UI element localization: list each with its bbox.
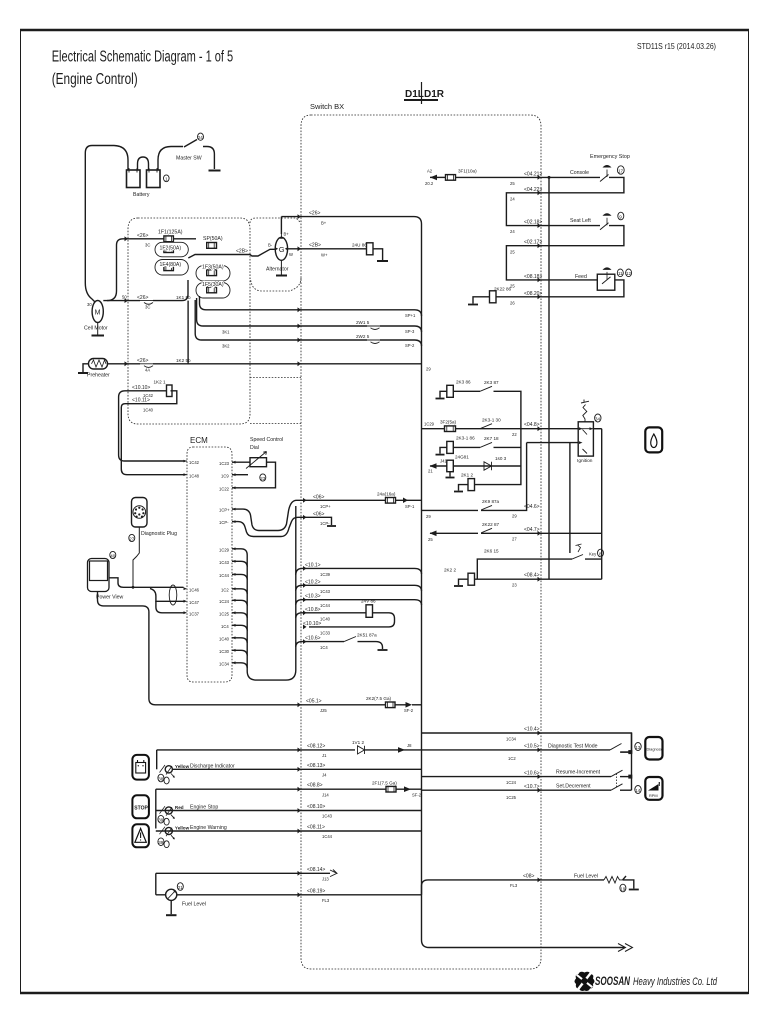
svg-text:1C30: 1C30 [219, 649, 230, 654]
wire battery1 to left bus [85, 146, 128, 303]
page frame right border [748, 30, 750, 994]
wire 10.10 to ECM pin 1C42 [119, 455, 184, 461]
svg-text:D1L: D1L [405, 89, 424, 100]
key switch blade [572, 555, 583, 560]
preheater body [89, 359, 108, 370]
svg-text:STOP: STOP [134, 805, 148, 811]
svg-text:24: 24 [198, 135, 204, 140]
stadium around fuse 1F5 [196, 283, 230, 299]
svg-text:B+: B+ [321, 221, 327, 226]
svg-text:3C: 3C [145, 243, 150, 248]
console mushroom button [606, 170, 608, 178]
fuel sender resistor zigzag [604, 877, 623, 884]
engine stop badge circle 39 [158, 815, 164, 823]
relay row 2K1 2 coil [468, 479, 475, 491]
wire battery2 to master switch [158, 147, 183, 171]
2K3 row to vertical [494, 391, 521, 428]
seat left emergency stop switch blade [600, 223, 609, 230]
fuel badge circle 21 [177, 883, 183, 891]
stadium around fuse 1F2 [155, 242, 188, 256]
key switch squiggle [576, 544, 582, 552]
svg-text:Electrical Schematic Diagram -: Electrical Schematic Diagram - 1 of 5 [52, 49, 234, 66]
svg-text:Speed Control: Speed Control [250, 437, 283, 443]
preheater wire to B+ bus [153, 363, 422, 365]
svg-text:Seat Left: Seat Left [570, 218, 591, 224]
svg-text:J41: J41 [440, 459, 447, 464]
svg-text:Power View: Power View [96, 595, 124, 601]
svg-text:<04.7>: <04.7> [524, 527, 540, 533]
harness corridor dashed lines [250, 377, 301, 379]
relay row 2K3: coil [447, 385, 454, 397]
svg-text:<10.4>: <10.4> [524, 727, 540, 733]
discharge indicator lamp [165, 766, 172, 773]
svg-text:1C44: 1C44 [320, 603, 331, 608]
svg-text:1C42: 1C42 [189, 460, 200, 465]
2K22 86 coil to ground [473, 297, 490, 304]
svg-text:1C23: 1C23 [219, 461, 230, 466]
svg-text:1K2 1: 1K2 1 [154, 380, 166, 385]
svg-text:1C25: 1C25 [506, 795, 517, 800]
svg-text:25: 25 [510, 284, 515, 289]
fuse 1F2 [164, 247, 174, 253]
svg-text:14: 14 [635, 788, 641, 793]
set switch blade [611, 784, 623, 790]
ignition terminal marks [579, 427, 593, 430]
feed bus vertical (right) [548, 177, 550, 579]
seat left mushroom button [606, 218, 608, 226]
svg-text:<10.6>: <10.6> [524, 770, 540, 776]
svg-text:Feed: Feed [575, 274, 587, 280]
alternator terminal marks [275, 236, 288, 251]
svg-text:1C39: 1C39 [320, 572, 331, 577]
svg-text:39: 39 [158, 818, 164, 823]
relay coil 24V 86 (10.8 row) [366, 605, 373, 618]
Power View monitor outer [88, 559, 110, 592]
master switch right wire to ground [203, 147, 214, 170]
console row fuse to switch [456, 176, 601, 178]
master switch circle badge 24 [198, 133, 204, 140]
svg-text:SF-2: SF-2 [412, 792, 422, 797]
2K7 18 contact blade [480, 442, 492, 447]
08.4 row [475, 578, 602, 580]
svg-text:<06>: <06> [313, 511, 324, 517]
2K22 87 contact blade on 04.7 [480, 528, 492, 533]
svg-text:<08.4>: <08.4> [524, 573, 540, 579]
svg-text:J8: J8 [407, 743, 412, 748]
sheet mark D1L / D1R [404, 82, 438, 104]
svg-text:1C44: 1C44 [219, 573, 230, 578]
diode row coil 24G81 [447, 460, 454, 472]
fuel row jog up at bus [422, 880, 605, 895]
svg-text:Fuel Level: Fuel Level [182, 902, 206, 908]
row A vertical to row B [156, 750, 158, 769]
svg-text:Heavy Industries Co. Ltd: Heavy Industries Co. Ltd [633, 976, 718, 988]
SP-3 row wire left of contact [211, 325, 367, 327]
fuse SP(50A) [207, 243, 217, 249]
battery warning icon box [132, 755, 149, 780]
indicator row A wire [157, 749, 355, 751]
svg-text:<10.11>: <10.11> [132, 398, 150, 404]
svg-text:<10.10>: <10.10> [303, 621, 321, 627]
svg-text:1CP+: 1CP+ [320, 504, 331, 509]
svg-text:SP-1: SP-1 [405, 504, 415, 509]
svg-text:24V 86: 24V 86 [361, 599, 376, 604]
ignition acc wire left [527, 442, 579, 444]
2K3-1 row to vertical [494, 446, 521, 448]
1CP- wire jog [232, 517, 322, 536]
svg-text:2K6 15: 2K6 15 [484, 548, 499, 553]
wire M to 1K1 relay row [103, 300, 140, 302]
row E wire [156, 830, 422, 832]
seat circle badge 9 [618, 212, 624, 220]
svg-text:1C2: 1C2 [508, 756, 516, 761]
svg-text:19: 19 [620, 886, 626, 891]
svg-text:2K2(7.5 Ga): 2K2(7.5 Ga) [366, 696, 391, 701]
04.6 row [422, 509, 521, 511]
svg-text:Yellow: Yellow [175, 764, 190, 769]
svg-text:2K1 2: 2K1 2 [461, 472, 473, 477]
fuel right badge circle 19 [620, 884, 626, 892]
svg-text:Dial: Dial [250, 445, 259, 451]
Diagnostic Plug connector body [132, 498, 148, 528]
alternator G [275, 237, 287, 260]
svg-text:D1R: D1R [424, 89, 445, 100]
svg-text:17: 17 [618, 168, 624, 173]
svg-text:SP+1: SP+1 [405, 313, 416, 318]
SOOSAN logo mark [575, 972, 595, 991]
feed circle badges 11 12 [617, 269, 623, 277]
svg-text:22: 22 [512, 432, 517, 437]
ECM pin 1C2 wire into bundle [232, 589, 247, 594]
engine warning lamp [165, 827, 172, 834]
relay coil 1K2 1 [167, 385, 173, 397]
1K2 5b relay contact hump [140, 364, 153, 368]
ECM pin 1C44 wire into bundle [232, 574, 247, 580]
svg-text:Yellow: Yellow [175, 826, 190, 831]
svg-text:1F3(50A): 1F3(50A) [202, 265, 224, 271]
wire junction to ECM pin 1C46 [133, 586, 184, 588]
svg-text:<08.14>: <08.14> [307, 867, 325, 873]
ECM pin 1C4 wire into bundle [232, 625, 247, 631]
svg-text:1C4: 1C4 [221, 624, 229, 629]
svg-text:1C34: 1C34 [219, 661, 230, 666]
W wire to ground [373, 249, 383, 260]
svg-text:<08>: <08> [523, 873, 534, 879]
DTM contact to vertical [620, 751, 632, 753]
battery jumper wire [138, 157, 149, 170]
key link vertical [569, 443, 571, 553]
svg-text:23: 23 [260, 476, 266, 481]
svg-text:12: 12 [626, 271, 632, 276]
svg-text:Battery: Battery [133, 192, 150, 198]
svg-text:21: 21 [428, 469, 433, 474]
speed control return wire to 1C22 [232, 462, 276, 488]
battery 2 [147, 170, 161, 188]
2K1 2 coil ground [459, 485, 469, 491]
2K3-1 30 contact blade [480, 424, 492, 429]
svg-text:1C40: 1C40 [143, 408, 154, 413]
svg-text:SOOSAN: SOOSAN [595, 976, 630, 988]
feed switch enclosure box [597, 274, 615, 290]
wire monitor to junction [109, 578, 133, 588]
wire 1C37 feed [156, 601, 184, 613]
fuel sender circle [166, 889, 177, 900]
svg-text:J25: J25 [320, 708, 327, 713]
svg-text:SF-2: SF-2 [404, 708, 414, 713]
svg-text:3K2: 3K2 [222, 344, 230, 349]
svg-text:1F2(50A): 1F2(50A) [160, 246, 182, 252]
svg-text:2K3-1 86: 2K3-1 86 [456, 435, 475, 440]
svg-text:Engine Stop: Engine Stop [190, 805, 218, 811]
riser M node to fuse feed row [107, 239, 128, 301]
ignition feed row from B+ bus [422, 428, 579, 430]
svg-text:21: 21 [178, 885, 184, 890]
svg-text:RPM: RPM [649, 793, 658, 798]
2K3 coil ground [440, 391, 447, 397]
svg-text:G: G [279, 245, 285, 254]
svg-text:2W1 5: 2W1 5 [356, 320, 370, 325]
svg-text:1C4: 1C4 [320, 645, 328, 650]
resume switch blade [611, 770, 623, 776]
ignition row through box [578, 428, 602, 430]
preheater ground [83, 364, 89, 372]
1CP+ row to fuse [301, 499, 386, 501]
speed control wire 1C23 [232, 461, 250, 463]
right vertical bus (diag rows) [631, 733, 633, 790]
svg-text:J4: J4 [322, 773, 327, 778]
console emergency stop switch blade [600, 175, 609, 182]
SP+1 row riser from fuse 1F3 [200, 296, 215, 310]
svg-text:<2B>: <2B> [236, 249, 248, 255]
svg-text:B-: B- [268, 243, 273, 248]
svg-text:2K22 86: 2K22 86 [494, 287, 512, 292]
svg-text:<08.10>: <08.10> [307, 804, 325, 810]
row B wire [172, 768, 421, 770]
resume-set link dashed [616, 774, 618, 789]
1K1 5b relay contact hump [140, 301, 153, 305]
svg-text:3F1(10a): 3F1(10a) [458, 169, 477, 174]
DTM row bus to switch [422, 749, 611, 751]
svg-text:Engine Warning: Engine Warning [190, 825, 227, 831]
connector pin ticks on Switch BX left edge [298, 214, 307, 897]
page frame bottom border [20, 992, 749, 994]
acc vertical to 04.6 row [520, 443, 527, 511]
svg-text:1CP-: 1CP- [219, 520, 229, 525]
svg-text:<08.11>: <08.11> [307, 825, 325, 831]
svg-text:ECM: ECM [190, 436, 208, 445]
svg-text:1CP-: 1CP- [320, 521, 330, 526]
svg-text:27: 27 [512, 536, 517, 541]
2K3-1 row wire [453, 446, 480, 448]
svg-text:1C25: 1C25 [219, 611, 230, 616]
B+ bus horizontal to corner [281, 217, 421, 240]
ECM pin 1C40 wire into bundle [232, 638, 247, 643]
2W2 5 contact hump [367, 340, 380, 344]
05.1 row arrow to B+ bus [406, 702, 413, 708]
svg-text:39: 39 [158, 840, 164, 845]
svg-text:1C24: 1C24 [219, 599, 230, 604]
stadium around fuse 1F3 [196, 266, 230, 282]
fuse 3F1(10A) [446, 175, 456, 181]
svg-text:W+: W+ [321, 253, 328, 258]
1K2-1 coil row (10.10) [119, 391, 167, 455]
ignition switch box [578, 422, 593, 456]
svg-text:27: 27 [129, 536, 135, 541]
svg-text:1K1 5b: 1K1 5b [176, 295, 191, 300]
main feed wire to alternator [188, 249, 274, 258]
svg-text:J14: J14 [322, 792, 329, 797]
24G81 ground [449, 472, 451, 477]
svg-text:24G81: 24G81 [455, 455, 469, 460]
connector pin ticks on Switch BX right edge [538, 175, 542, 882]
10.10 row to loop corner [121, 391, 183, 475]
svg-text:<26>: <26> [137, 233, 148, 239]
2K2 2 coil ground [459, 579, 469, 585]
svg-text:1F5(30A): 1F5(30A) [202, 282, 224, 288]
svg-text:Cell Motor: Cell Motor [84, 326, 108, 332]
alternator W terminal wire [288, 248, 367, 250]
svg-text:Set.Decrement: Set.Decrement [556, 784, 591, 790]
STOP icon box [132, 795, 149, 818]
svg-text:SP(50A): SP(50A) [203, 236, 223, 242]
svg-text:J1: J1 [322, 753, 327, 758]
ignition internal contacts [583, 430, 588, 454]
battery 1 [127, 170, 141, 188]
svg-text:24U 86: 24U 86 [352, 242, 367, 247]
diagnostic plug wire down to junction [133, 527, 139, 587]
fuse 1F4 [164, 265, 174, 271]
2K9 87a contact blade on 04.6 [480, 505, 492, 510]
fuel group vertical [155, 873, 157, 895]
svg-text:1CP+: 1CP+ [219, 508, 230, 513]
SP-2 row riser [195, 300, 210, 340]
svg-text:Emergency Stop: Emergency Stop [590, 154, 630, 160]
2K3 87 contact blade [480, 386, 492, 391]
set contact [620, 789, 632, 791]
SP-3 row wire to bus [380, 326, 422, 332]
speed control circle badge 23 [260, 474, 266, 481]
svg-text:25: 25 [510, 249, 515, 254]
wire 1K1 to riser [153, 280, 188, 301]
row 10.2 from bundle [296, 585, 422, 591]
ignition circle badge 34 [595, 414, 601, 422]
svg-text:3C: 3C [145, 305, 150, 310]
SP+1 row wire [214, 310, 422, 316]
svg-text:2K51 87a: 2K51 87a [357, 633, 377, 638]
svg-text:FL3: FL3 [322, 898, 330, 903]
Power View circle badge 40 [110, 551, 116, 558]
fuse feed row 1F1 [128, 238, 196, 240]
wire 1C47 feed [150, 589, 184, 602]
junction dot [132, 586, 135, 589]
monitor bottom wire to bus [98, 592, 408, 705]
SP-3 row riser [197, 298, 211, 326]
svg-text:Master SW: Master SW [176, 156, 202, 162]
svg-text:<2B>: <2B> [309, 243, 321, 249]
svg-text:A2: A2 [427, 168, 433, 173]
svg-text:20.2: 20.2 [425, 181, 434, 186]
fuse 24a(16a) [386, 498, 396, 504]
svg-text:1C29: 1C29 [424, 422, 435, 427]
Switch BX dashed enclosure [301, 115, 541, 969]
svg-text:<10.3>: <10.3> [305, 594, 321, 600]
1CP+ row fuse to bus [396, 499, 422, 501]
alternator ground [280, 260, 282, 274]
svg-text:Console: Console [570, 170, 589, 176]
ignition right vertical [601, 429, 603, 580]
svg-text:1C44: 1C44 [322, 834, 333, 839]
wire preheater to 1K2 relay [108, 363, 141, 365]
svg-text:30: 30 [87, 302, 92, 307]
svg-text:Red: Red [175, 805, 184, 810]
svg-text:4A: 4A [145, 368, 150, 373]
2K51 87a contact blade [344, 637, 356, 642]
svg-text:1C43: 1C43 [322, 814, 333, 819]
svg-text:2K3 87: 2K3 87 [484, 380, 499, 385]
svg-text:1C47: 1C47 [189, 600, 200, 605]
svg-text:25: 25 [428, 537, 433, 542]
set decrement row [422, 789, 612, 791]
svg-text:1C9: 1C9 [221, 473, 229, 478]
feed row right corner down to 08.20 [496, 280, 624, 297]
svg-text:1C40: 1C40 [219, 636, 230, 641]
key row right [585, 558, 602, 560]
B+ bus bottom exit with arrows [422, 940, 626, 948]
svg-text:1F4(80A): 1F4(80A) [160, 262, 182, 268]
console circle badge 17 [617, 166, 624, 174]
10.8 loop to 1C33 row [309, 613, 395, 627]
connector ellipse over 1C46/1C47 [169, 585, 177, 605]
B+ bus vertical (main distribution) [421, 240, 423, 940]
svg-text:1C22: 1C22 [219, 486, 230, 491]
svg-text:<04.8>: <04.8> [524, 422, 540, 428]
svg-text:13: 13 [635, 745, 641, 750]
svg-text:1C29: 1C29 [219, 547, 230, 552]
row C fuse to bus [396, 788, 422, 790]
svg-text:1C37: 1C37 [189, 611, 200, 616]
resume increment row [422, 776, 612, 778]
warning triangle icon box [132, 824, 149, 847]
svg-text:2K2 2: 2K2 2 [444, 567, 456, 572]
svg-text:1C24: 1C24 [506, 780, 517, 785]
console feed row with 3F1 fuse [430, 176, 446, 178]
row A diode to bus with arrow [365, 749, 422, 751]
svg-text:<10.10>: <10.10> [132, 385, 150, 391]
ECM pin 1C25 wire into bundle [232, 613, 247, 618]
diode 1s0 3 [484, 462, 492, 470]
fuse 1F5 [207, 287, 217, 293]
ECM pin tick marks [184, 460, 236, 665]
svg-text:2W2 5: 2W2 5 [356, 334, 370, 339]
svg-text:<10.1>: <10.1> [305, 562, 321, 568]
page frame left border [20, 30, 22, 994]
diode row wire [453, 465, 521, 467]
fuse 2K2(7.5Ga) on 05.1 row [386, 702, 396, 708]
svg-text:J13: J13 [322, 877, 329, 882]
svg-text:SP-3: SP-3 [405, 329, 415, 334]
diagnose circle badge 13 [635, 743, 641, 751]
ECM right pins bundle riser [232, 506, 296, 680]
ECM pin 1C42 stub [184, 460, 188, 462]
ECM pin 1C48 wire [184, 474, 188, 476]
svg-text:2K7 18: 2K7 18 [484, 436, 499, 441]
svg-text:29: 29 [426, 514, 431, 519]
svg-text:M: M [95, 310, 101, 317]
svg-text:(Engine Control): (Engine Control) [52, 71, 138, 88]
svg-text:1C40: 1C40 [320, 616, 331, 621]
svg-text:FL3: FL3 [510, 883, 518, 888]
ECM dashed box [187, 447, 232, 682]
